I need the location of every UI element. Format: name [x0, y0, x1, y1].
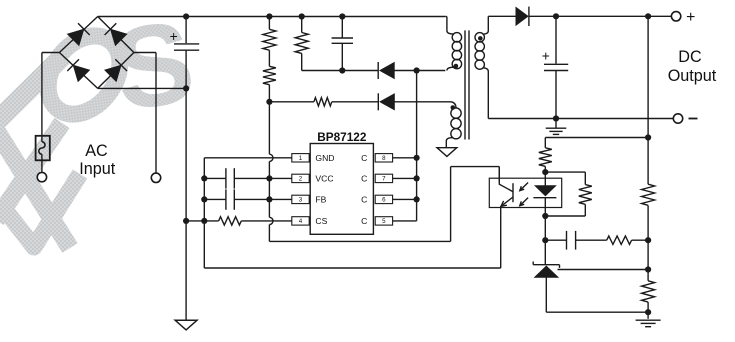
wire comp node to C6 — [545, 239, 566, 241]
svg-text:DC: DC — [678, 48, 702, 66]
diode D3 (output rectifier) — [516, 7, 529, 26]
transformer T1 primary winding — [447, 17, 462, 71]
wire IC ground vertical and run to opto emitter — [204, 158, 500, 268]
fuse F1 — [36, 136, 50, 161]
capacitor C6 (compensation) — [567, 231, 576, 250]
svg-text:3: 3 — [299, 197, 303, 204]
wire output plus rail — [529, 15, 672, 17]
svg-text:C: C — [361, 174, 367, 184]
wire top rail corner to primary — [445, 16, 447, 18]
wire bridge negative rail — [98, 87, 186, 89]
junction dot LED top — [542, 169, 548, 175]
wire clamp diode to primary bottom — [394, 70, 445, 72]
svg-text:BP87122: BP87122 — [317, 130, 367, 144]
polarity dot aux — [451, 105, 456, 110]
capacitor C4 (FB) — [226, 189, 234, 209]
transformer T1 secondary winding — [475, 16, 488, 71]
junction dot top rail / clamp resistor — [299, 13, 305, 19]
junction dot FB pin line — [266, 196, 272, 202]
diode D2 (aux rectifier) — [378, 93, 394, 110]
op-amp U1 BP87122 controller IC — [292, 130, 393, 235]
junction dot plus rail / feedback rail — [645, 13, 651, 19]
resistor R8 (LED series) — [539, 138, 552, 173]
resistor R5 (CS) — [219, 217, 242, 225]
bridge rectifier BR1 — [59, 17, 133, 89]
svg-text:C: C — [361, 195, 367, 205]
diode D1 (clamp) — [378, 62, 394, 79]
wire VCC/FB feed vertical with hops and run to optocoupler collector — [269, 102, 499, 242]
junction dot VCC feed node — [266, 99, 272, 105]
wire FB cap to pin3 — [234, 198, 291, 200]
wire bridge left stub — [42, 52, 60, 54]
svg-text:C: C — [361, 153, 367, 163]
wire CS resistor to pin4 — [241, 220, 291, 222]
polarity dot primary — [454, 64, 459, 69]
junction dot minus rail / C5 — [553, 115, 559, 121]
wire LED bottom to comp node — [544, 216, 546, 240]
resistor R1 (startup upper) — [263, 17, 276, 51]
resistor R6 (divider upper) — [642, 184, 655, 205]
ground secondary (bars) — [546, 119, 567, 135]
junction dot plus rail / C5 — [553, 13, 559, 19]
junction dot top rail / clamp capacitor — [339, 13, 345, 19]
junction dot ref line — [645, 266, 651, 272]
wire LED bottom — [544, 198, 546, 216]
wire secondary bottom down to minus rail — [487, 72, 489, 119]
svg-text:Output: Output — [668, 67, 717, 85]
wire pin7 to drain — [393, 177, 417, 179]
wire feedback rail vertical — [647, 16, 649, 319]
junction dot drain node — [414, 67, 420, 73]
wire CS line left — [186, 220, 219, 222]
junction dot clamp node — [339, 67, 345, 73]
terminal AC neutral — [151, 173, 160, 182]
junction dot gnd/vcc-cap — [201, 175, 207, 181]
resistor R3 (clamp) — [295, 17, 308, 71]
svg-text:1: 1 — [299, 155, 303, 162]
junction dot pin7 line — [414, 175, 420, 181]
ground feedback (bars) — [636, 320, 661, 327]
wire drain vertical to IC C pins — [416, 71, 418, 221]
svg-text:GND: GND — [315, 153, 334, 163]
resistor R4 (aux series) — [314, 98, 332, 106]
svg-text:AC: AC — [85, 142, 108, 160]
zener ZD1 (shunt regulator) — [533, 262, 559, 278]
terminal DC plus — [671, 9, 695, 26]
label DC Output — [668, 48, 717, 85]
junction dot comp network — [645, 237, 651, 243]
wire C6 to R10 — [576, 239, 607, 241]
wire zener anode down — [545, 278, 547, 313]
wire aux resistor to aux diode — [332, 101, 379, 103]
optocoupler U2 light arrows — [520, 183, 528, 206]
junction dot LED bottom — [542, 213, 548, 219]
wire comp node to zener — [544, 240, 546, 265]
junction dot VCC pin line — [266, 175, 272, 181]
wire R10 to feedback rail — [632, 239, 649, 241]
wire pin6 to drain — [393, 198, 417, 200]
wire VCC cap to pin2 — [234, 177, 291, 179]
resistor R7 (divider lower) — [642, 281, 655, 302]
capacitor C1 (bulk electrolytic) — [170, 17, 200, 89]
capacitor C2 (clamp) — [332, 17, 353, 71]
junction dot primary gnd / CS line — [183, 218, 189, 224]
wire top rail from bridge to transformer primary — [98, 16, 446, 18]
wire fuse to terminal — [41, 160, 43, 172]
ground aux (arrow) — [437, 148, 457, 157]
wire ref line — [558, 269, 649, 271]
wire VCC node to aux series resistor — [269, 101, 314, 103]
polarity dot secondary — [478, 36, 483, 41]
junction dot top rail / C1 — [183, 13, 189, 19]
wire LED vertical — [544, 172, 546, 185]
wire between R1 R2 — [268, 50, 270, 66]
junction dot gnd/fb-cap — [201, 196, 207, 202]
optocoupler U2 box — [489, 178, 561, 207]
terminal DC minus — [673, 114, 697, 123]
wire output minus rail — [488, 118, 673, 120]
wire primary ground vertical — [185, 88, 187, 320]
svg-text:4: 4 — [299, 218, 303, 225]
svg-text:+: + — [542, 48, 550, 63]
svg-text:8: 8 — [382, 155, 386, 162]
svg-text:FB: FB — [315, 195, 326, 205]
wire secondary top to output diode — [488, 15, 516, 17]
svg-text:VCC: VCC — [315, 174, 333, 184]
optocoupler U2 phototransistor — [499, 167, 513, 207]
wire divider tap to LED resistor — [545, 137, 648, 139]
wire AC line right down to terminal — [155, 53, 157, 174]
svg-text:C: C — [361, 216, 367, 226]
svg-text:CS: CS — [315, 216, 327, 226]
junction dot upper divider tap — [645, 134, 651, 140]
svg-text:7: 7 — [382, 176, 386, 183]
svg-text:+: + — [686, 9, 695, 26]
wire FB cap left — [204, 198, 226, 200]
label AC Input — [79, 142, 116, 178]
svg-text:2: 2 — [299, 176, 303, 183]
junction dot gnd/cs-line — [201, 218, 207, 224]
junction dot pin8 line — [414, 155, 420, 161]
ground primary (arrow) — [175, 320, 197, 330]
terminal AC live — [37, 172, 46, 181]
wire clamp node to clamp diode — [342, 70, 378, 72]
wire clamp resistor to clamp node — [302, 70, 343, 72]
optocoupler U2 LED — [533, 186, 556, 198]
junction dot comp node — [542, 237, 548, 243]
transformer T1 aux winding — [446, 102, 461, 148]
wire VCC cap left — [204, 177, 226, 179]
resistor R2 (startup lower) — [263, 66, 276, 102]
resistor R9 (parallel to LED) — [545, 172, 592, 216]
wire pin5 to drain — [393, 220, 417, 222]
resistor R10 (compensation) — [607, 236, 632, 244]
wire aux diode to aux winding — [395, 101, 452, 103]
capacitor C5 (output electrolytic) — [542, 16, 568, 118]
wire AC line left down to fuse — [41, 53, 43, 136]
svg-text:5: 5 — [382, 218, 386, 225]
wire zener anode to feedback rail — [546, 311, 648, 313]
svg-text:+: + — [170, 29, 178, 44]
wire pin1 GND line — [204, 157, 291, 159]
wire bridge right stub — [134, 52, 156, 54]
capacitor C3 (VCC) — [226, 168, 234, 188]
junction dot zener anode line — [645, 309, 651, 315]
svg-text:Input: Input — [79, 160, 116, 178]
svg-text:6: 6 — [382, 197, 386, 204]
wire pin8 to drain — [393, 157, 417, 159]
junction dot negative rail / C1 — [183, 85, 189, 91]
junction dot pin6 line — [414, 196, 420, 202]
junction dot top rail / startup resistors — [266, 13, 272, 19]
transformer T1 core — [465, 30, 469, 139]
